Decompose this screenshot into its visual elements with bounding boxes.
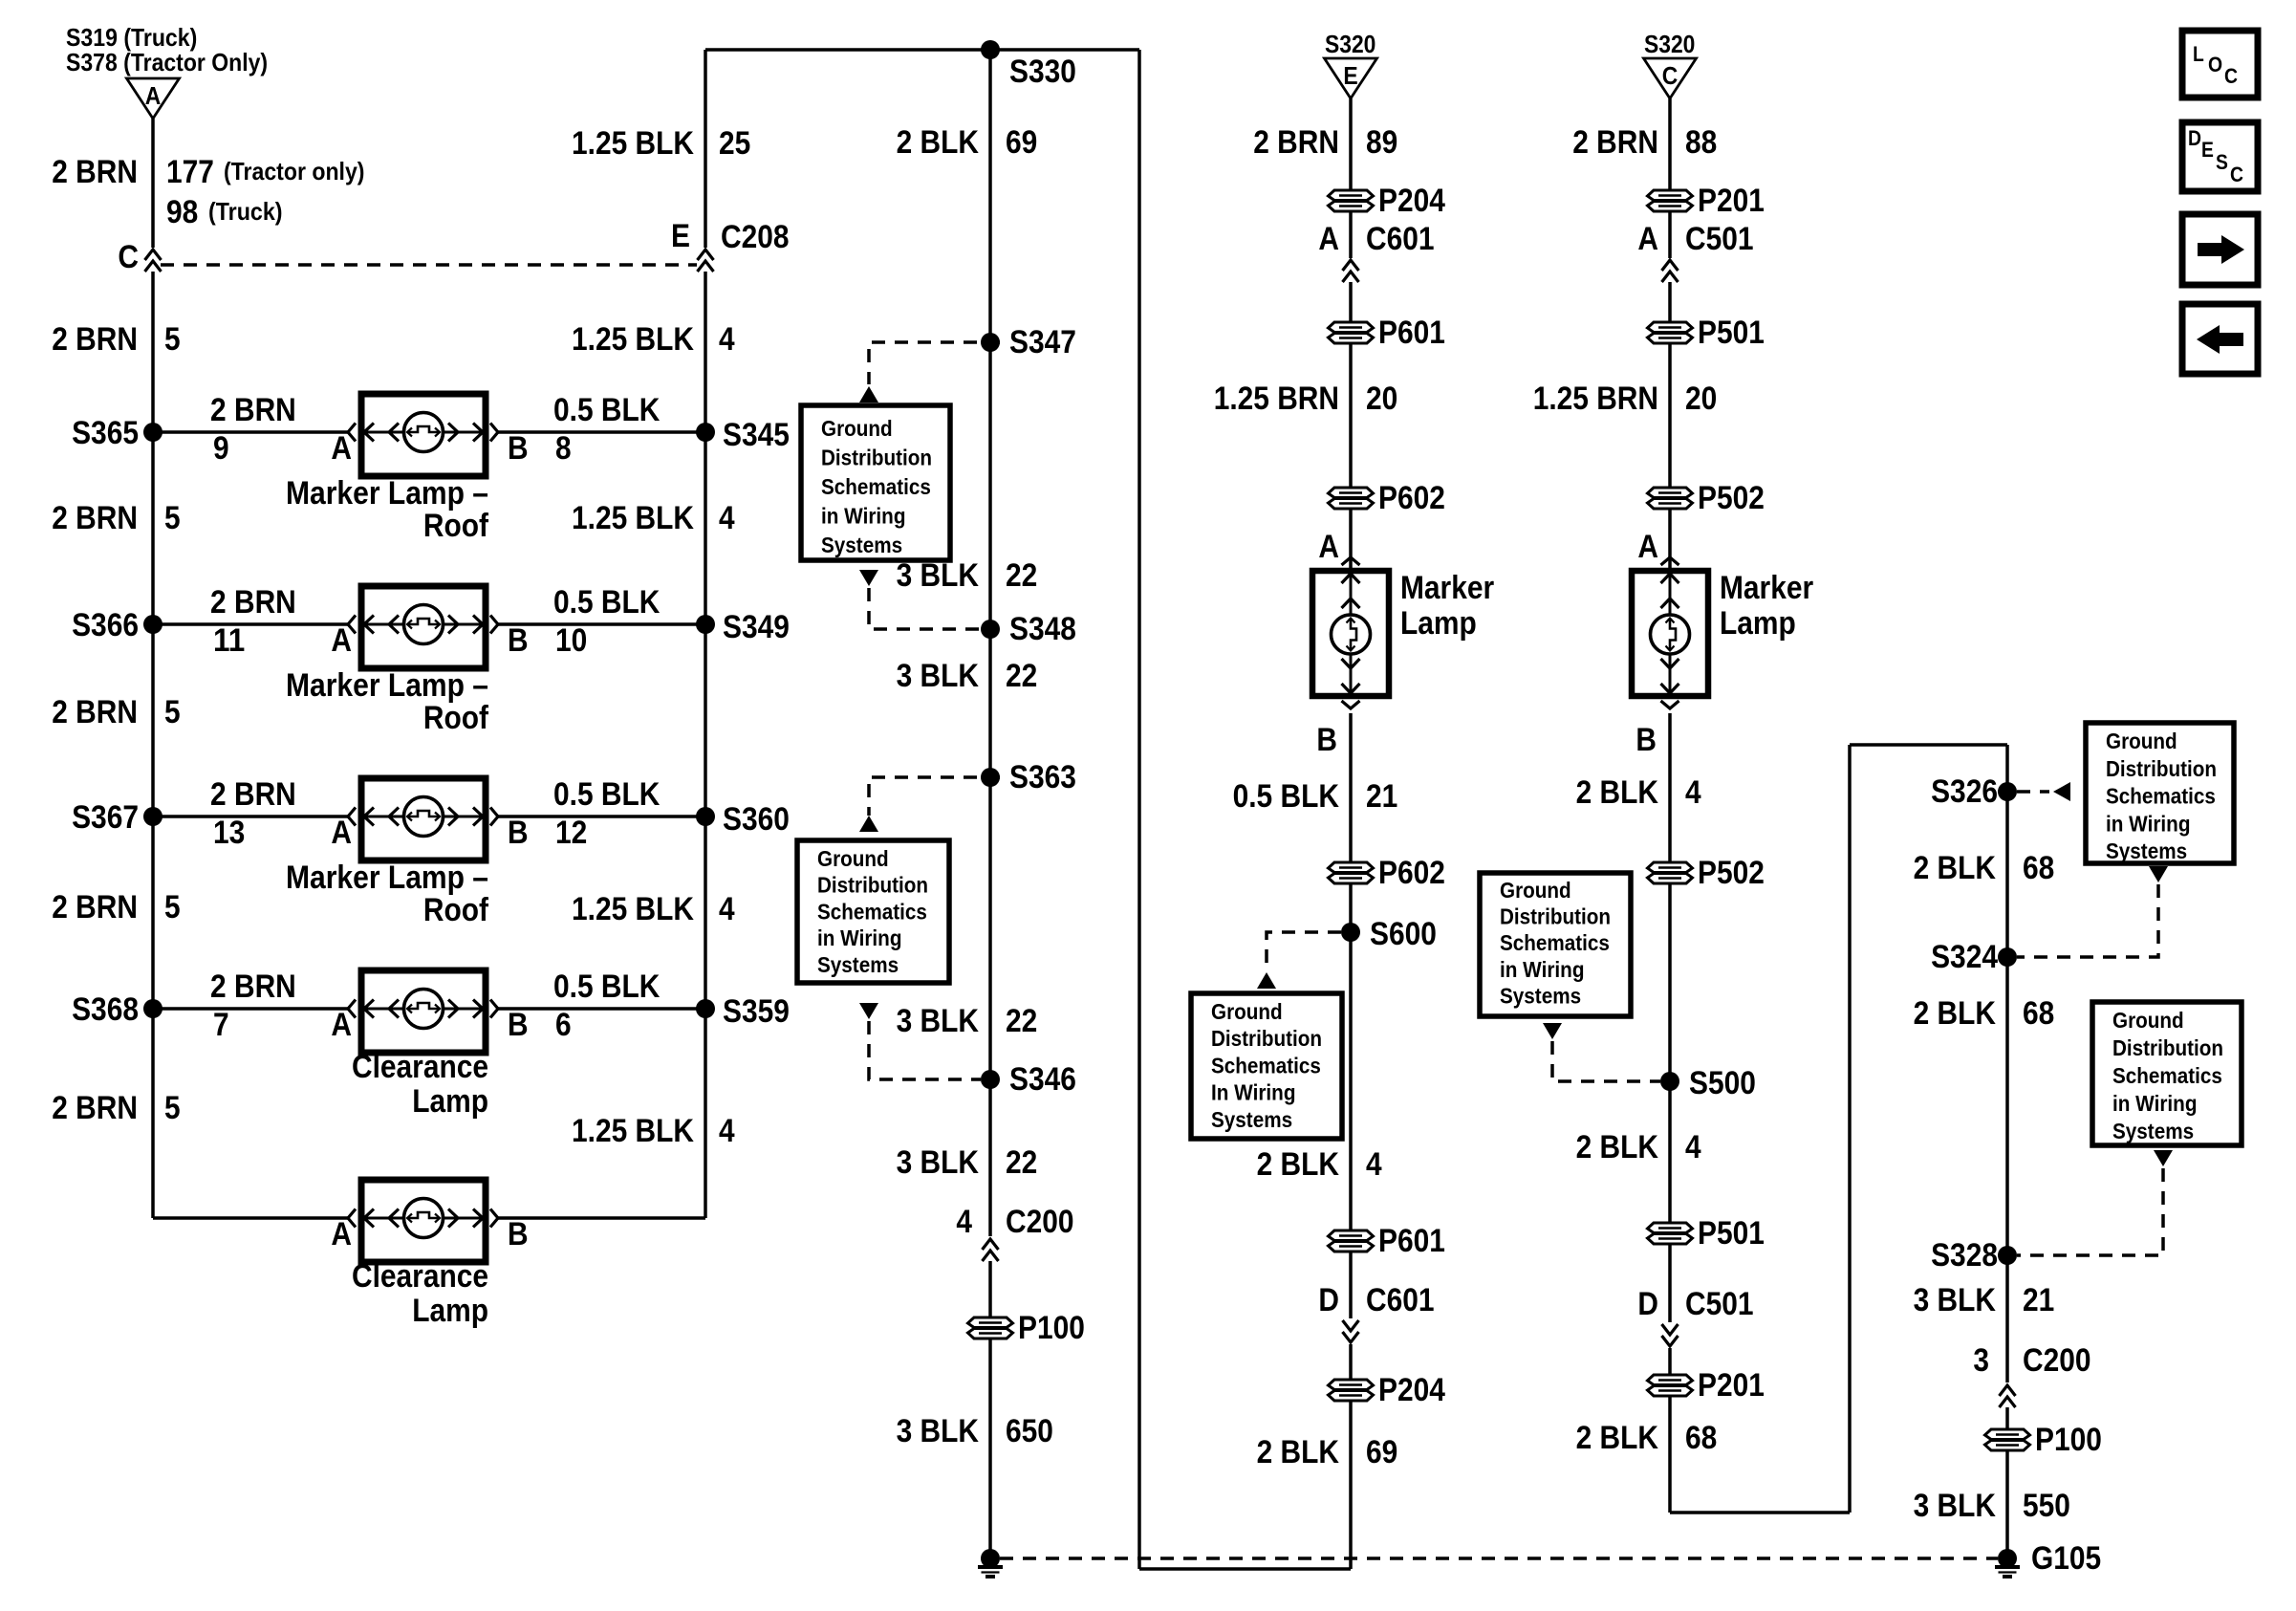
svg-text:Ground: Ground [1211, 999, 1283, 1024]
svg-text:E: E [671, 218, 690, 254]
svg-text:2 BRN: 2 BRN [52, 321, 138, 358]
svg-text:S365: S365 [72, 415, 139, 451]
svg-text:177: 177 [166, 154, 214, 190]
svg-text:C200: C200 [1006, 1204, 1074, 1240]
svg-text:21: 21 [1366, 778, 1397, 815]
svg-text:in Wiring: in Wiring [2112, 1091, 2198, 1116]
svg-text:C208: C208 [721, 219, 790, 255]
svg-text:Marker Lamp –: Marker Lamp – [286, 860, 488, 896]
svg-text:in Wiring: in Wiring [817, 925, 902, 950]
svg-text:2 BRN: 2 BRN [52, 694, 138, 730]
svg-text:P601: P601 [1378, 315, 1445, 351]
svg-text:4: 4 [719, 500, 735, 536]
svg-text:in Wiring: in Wiring [821, 504, 906, 529]
svg-text:B: B [508, 815, 529, 851]
svg-text:2 BLK: 2 BLK [1576, 1129, 1659, 1165]
svg-text:S600: S600 [1370, 916, 1437, 952]
svg-text:12: 12 [555, 815, 587, 851]
svg-text:21: 21 [2023, 1282, 2054, 1318]
svg-text:Schematics: Schematics [817, 899, 927, 924]
svg-text:P204: P204 [1378, 1372, 1445, 1408]
svg-text:B: B [508, 430, 529, 467]
svg-text:5: 5 [164, 889, 181, 925]
svg-text:S360: S360 [723, 801, 790, 838]
svg-text:D: D [1637, 1286, 1658, 1322]
svg-text:G105: G105 [2031, 1540, 2101, 1577]
svg-text:2 BLK: 2 BLK [1576, 1420, 1659, 1456]
svg-text:Marker: Marker [1400, 570, 1494, 606]
svg-text:20: 20 [1366, 381, 1397, 417]
svg-text:S324: S324 [1931, 939, 1998, 975]
svg-text:B: B [1316, 722, 1337, 758]
svg-text:1.25 BLK: 1.25 BLK [572, 321, 694, 358]
svg-text:Distribution: Distribution [817, 873, 928, 898]
svg-text:20: 20 [1685, 381, 1717, 417]
svg-text:2 BLK: 2 BLK [897, 124, 980, 161]
svg-text:89: 89 [1366, 124, 1397, 161]
svg-text:68: 68 [2023, 850, 2054, 886]
svg-text:S500: S500 [1689, 1065, 1756, 1101]
svg-text:Systems: Systems [821, 533, 902, 557]
svg-text:6: 6 [555, 1007, 572, 1043]
svg-text:E: E [1343, 61, 1357, 90]
svg-text:4: 4 [719, 1113, 735, 1149]
svg-text:Schematics: Schematics [2106, 784, 2216, 809]
svg-text:S330: S330 [1009, 54, 1076, 90]
svg-text:C601: C601 [1366, 221, 1435, 257]
svg-text:S346: S346 [1009, 1061, 1076, 1098]
svg-text:P501: P501 [1698, 1215, 1765, 1252]
svg-text:Schematics: Schematics [821, 474, 931, 499]
svg-text:A: A [1637, 529, 1658, 565]
svg-text:O: O [2208, 53, 2222, 76]
svg-text:P100: P100 [2035, 1422, 2102, 1458]
svg-text:Distribution: Distribution [821, 446, 932, 470]
svg-text:Lamp: Lamp [412, 1083, 488, 1120]
svg-text:4: 4 [719, 321, 735, 358]
svg-text:3 BLK: 3 BLK [897, 1003, 980, 1039]
svg-text:S326: S326 [1931, 773, 1998, 810]
svg-text:4: 4 [1685, 1129, 1701, 1165]
svg-text:0.5 BLK: 0.5 BLK [553, 392, 661, 428]
svg-text:B: B [508, 1216, 529, 1252]
svg-text:Clearance: Clearance [352, 1049, 488, 1085]
svg-text:P502: P502 [1698, 855, 1765, 891]
svg-text:Distribution: Distribution [2112, 1035, 2223, 1060]
svg-text:S347: S347 [1009, 324, 1076, 360]
svg-text:Systems: Systems [1500, 983, 1581, 1008]
svg-text:S363: S363 [1009, 759, 1076, 795]
svg-text:in Wiring: in Wiring [2106, 811, 2191, 836]
svg-text:0.5 BLK: 0.5 BLK [553, 776, 661, 813]
svg-text:2 BLK: 2 BLK [1257, 1434, 1340, 1470]
svg-text:3 BLK: 3 BLK [897, 1144, 980, 1181]
svg-text:Systems: Systems [2106, 838, 2187, 863]
svg-text:2 BRN: 2 BRN [1253, 124, 1339, 161]
svg-text:P602: P602 [1378, 855, 1445, 891]
svg-text:D: D [1318, 1282, 1339, 1318]
svg-text:P204: P204 [1378, 183, 1445, 219]
svg-text:L: L [2193, 42, 2204, 66]
svg-text:4: 4 [1366, 1146, 1382, 1183]
svg-text:A: A [1318, 221, 1339, 257]
svg-text:1.25 BRN: 1.25 BRN [1533, 381, 1658, 417]
svg-text:10: 10 [555, 622, 587, 659]
svg-text:S366: S366 [72, 607, 139, 643]
svg-text:Distribution: Distribution [2106, 756, 2217, 781]
svg-text:3 BLK: 3 BLK [897, 658, 980, 694]
svg-text:4: 4 [956, 1204, 972, 1240]
svg-text:Schematics: Schematics [1211, 1053, 1321, 1078]
svg-text:Distribution: Distribution [1211, 1026, 1322, 1051]
svg-text:S348: S348 [1009, 611, 1076, 647]
svg-text:P501: P501 [1698, 315, 1765, 351]
svg-text:A: A [331, 815, 352, 851]
svg-text:Marker: Marker [1720, 570, 1813, 606]
svg-text:B: B [1635, 722, 1657, 758]
svg-text:Systems: Systems [2112, 1119, 2194, 1143]
svg-text:22: 22 [1006, 1144, 1037, 1181]
svg-text:7: 7 [213, 1007, 229, 1043]
svg-text:Schematics: Schematics [1500, 930, 1610, 955]
svg-text:Systems: Systems [817, 952, 899, 977]
svg-text:A: A [1318, 529, 1339, 565]
svg-text:A: A [331, 1216, 352, 1252]
svg-text:1.25 BRN: 1.25 BRN [1214, 381, 1339, 417]
svg-text:Lamp: Lamp [1400, 605, 1477, 642]
svg-text:2 BRN: 2 BRN [210, 969, 296, 1005]
svg-text:(Truck): (Truck) [208, 197, 283, 226]
svg-text:22: 22 [1006, 1003, 1037, 1039]
svg-text:Roof: Roof [423, 892, 489, 928]
svg-text:S320: S320 [1644, 30, 1695, 58]
svg-text:1.25 BLK: 1.25 BLK [572, 891, 694, 927]
svg-text:5: 5 [164, 321, 181, 358]
svg-text:4: 4 [1685, 774, 1701, 811]
svg-text:0.5 BLK: 0.5 BLK [553, 969, 661, 1005]
svg-text:5: 5 [164, 500, 181, 536]
svg-text:3 BLK: 3 BLK [1914, 1282, 1997, 1318]
svg-text:P602: P602 [1378, 480, 1445, 516]
svg-text:S320: S320 [1325, 30, 1375, 58]
svg-text:1.25 BLK: 1.25 BLK [572, 500, 694, 536]
svg-text:2 BLK: 2 BLK [1576, 774, 1659, 811]
svg-text:Ground: Ground [2112, 1008, 2184, 1033]
svg-text:P201: P201 [1698, 183, 1765, 219]
svg-text:Lamp: Lamp [412, 1293, 488, 1329]
svg-text:Lamp: Lamp [1720, 605, 1796, 642]
svg-text:P100: P100 [1018, 1310, 1085, 1346]
svg-text:C: C [2224, 64, 2238, 88]
svg-text:5: 5 [164, 694, 181, 730]
svg-text:2 BRN: 2 BRN [52, 1090, 138, 1126]
svg-text:2 BRN: 2 BRN [52, 500, 138, 536]
svg-text:C: C [118, 239, 139, 275]
svg-text:11: 11 [213, 622, 245, 659]
svg-text:0.5 BLK: 0.5 BLK [1233, 778, 1340, 815]
svg-text:A: A [331, 1007, 352, 1043]
svg-text:3: 3 [1973, 1342, 1989, 1379]
svg-text:2 BLK: 2 BLK [1914, 850, 1997, 886]
svg-text:2 BRN: 2 BRN [1572, 124, 1658, 161]
svg-text:69: 69 [1366, 1434, 1397, 1470]
svg-text:Ground: Ground [1500, 878, 1571, 903]
svg-text:(Tractor only): (Tractor only) [224, 157, 365, 185]
svg-text:Marker Lamp –: Marker Lamp – [286, 475, 488, 512]
svg-text:Systems: Systems [1211, 1107, 1292, 1132]
svg-text:S368: S368 [72, 991, 139, 1028]
svg-text:S328: S328 [1931, 1237, 1998, 1274]
svg-text:2 BRN: 2 BRN [52, 889, 138, 925]
svg-text:3 BLK: 3 BLK [897, 1413, 980, 1449]
svg-text:S349: S349 [723, 609, 790, 645]
svg-text:25: 25 [719, 125, 750, 162]
svg-text:8: 8 [555, 430, 572, 467]
svg-text:2 BLK: 2 BLK [1257, 1146, 1340, 1183]
svg-text:98: 98 [166, 194, 198, 230]
svg-text:S: S [2216, 150, 2228, 174]
svg-text:4: 4 [719, 891, 735, 927]
svg-text:1.25 BLK: 1.25 BLK [572, 125, 694, 162]
svg-text:Ground: Ground [817, 846, 889, 871]
svg-text:3 BLK: 3 BLK [1914, 1488, 1997, 1524]
svg-text:2 BRN: 2 BRN [210, 584, 296, 620]
svg-text:in Wiring: in Wiring [1500, 957, 1585, 982]
svg-text:Roof: Roof [423, 700, 489, 736]
svg-text:88: 88 [1685, 124, 1717, 161]
svg-text:A: A [331, 430, 352, 467]
svg-text:A: A [331, 622, 352, 659]
svg-text:650: 650 [1006, 1413, 1053, 1449]
svg-text:C200: C200 [2023, 1342, 2091, 1379]
svg-text:1.25 BLK: 1.25 BLK [572, 1113, 694, 1149]
svg-text:A: A [145, 81, 162, 110]
svg-text:S345: S345 [723, 417, 790, 453]
svg-text:C: C [2230, 163, 2243, 186]
svg-text:P601: P601 [1378, 1223, 1445, 1259]
svg-text:Ground: Ground [2106, 729, 2177, 753]
svg-text:550: 550 [2023, 1488, 2070, 1524]
svg-text:B: B [508, 1007, 529, 1043]
svg-text:2 BRN: 2 BRN [210, 392, 296, 428]
svg-text:0.5 BLK: 0.5 BLK [553, 584, 661, 620]
svg-text:C601: C601 [1366, 1282, 1435, 1318]
svg-text:E: E [2201, 138, 2214, 162]
svg-text:68: 68 [1685, 1420, 1717, 1456]
svg-text:Distribution: Distribution [1500, 904, 1611, 929]
svg-text:In Wiring: In Wiring [1211, 1080, 1296, 1105]
svg-text:Clearance: Clearance [352, 1258, 488, 1295]
svg-text:Ground: Ground [821, 416, 893, 441]
svg-text:Roof: Roof [423, 508, 489, 544]
svg-text:S359: S359 [723, 993, 790, 1030]
svg-text:Marker Lamp –: Marker Lamp – [286, 667, 488, 704]
svg-text:B: B [508, 622, 529, 659]
svg-text:C501: C501 [1685, 1286, 1754, 1322]
svg-text:S378 (Tractor Only): S378 (Tractor Only) [66, 48, 268, 76]
svg-text:22: 22 [1006, 658, 1037, 694]
svg-text:P502: P502 [1698, 480, 1765, 516]
svg-text:2 BLK: 2 BLK [1914, 995, 1997, 1032]
svg-text:P201: P201 [1698, 1367, 1765, 1404]
svg-text:C: C [1662, 61, 1679, 90]
svg-text:5: 5 [164, 1090, 181, 1126]
svg-text:69: 69 [1006, 124, 1037, 161]
svg-text:2 BRN: 2 BRN [210, 776, 296, 813]
svg-text:C501: C501 [1685, 221, 1754, 257]
svg-text:Schematics: Schematics [2112, 1063, 2222, 1088]
svg-text:22: 22 [1006, 557, 1037, 594]
svg-text:A: A [1637, 221, 1658, 257]
svg-text:13: 13 [213, 815, 245, 851]
svg-text:68: 68 [2023, 995, 2054, 1032]
svg-text:2 BRN: 2 BRN [52, 154, 138, 190]
svg-text:S367: S367 [72, 799, 139, 836]
svg-text:9: 9 [213, 430, 229, 467]
svg-text:D: D [2188, 126, 2201, 150]
